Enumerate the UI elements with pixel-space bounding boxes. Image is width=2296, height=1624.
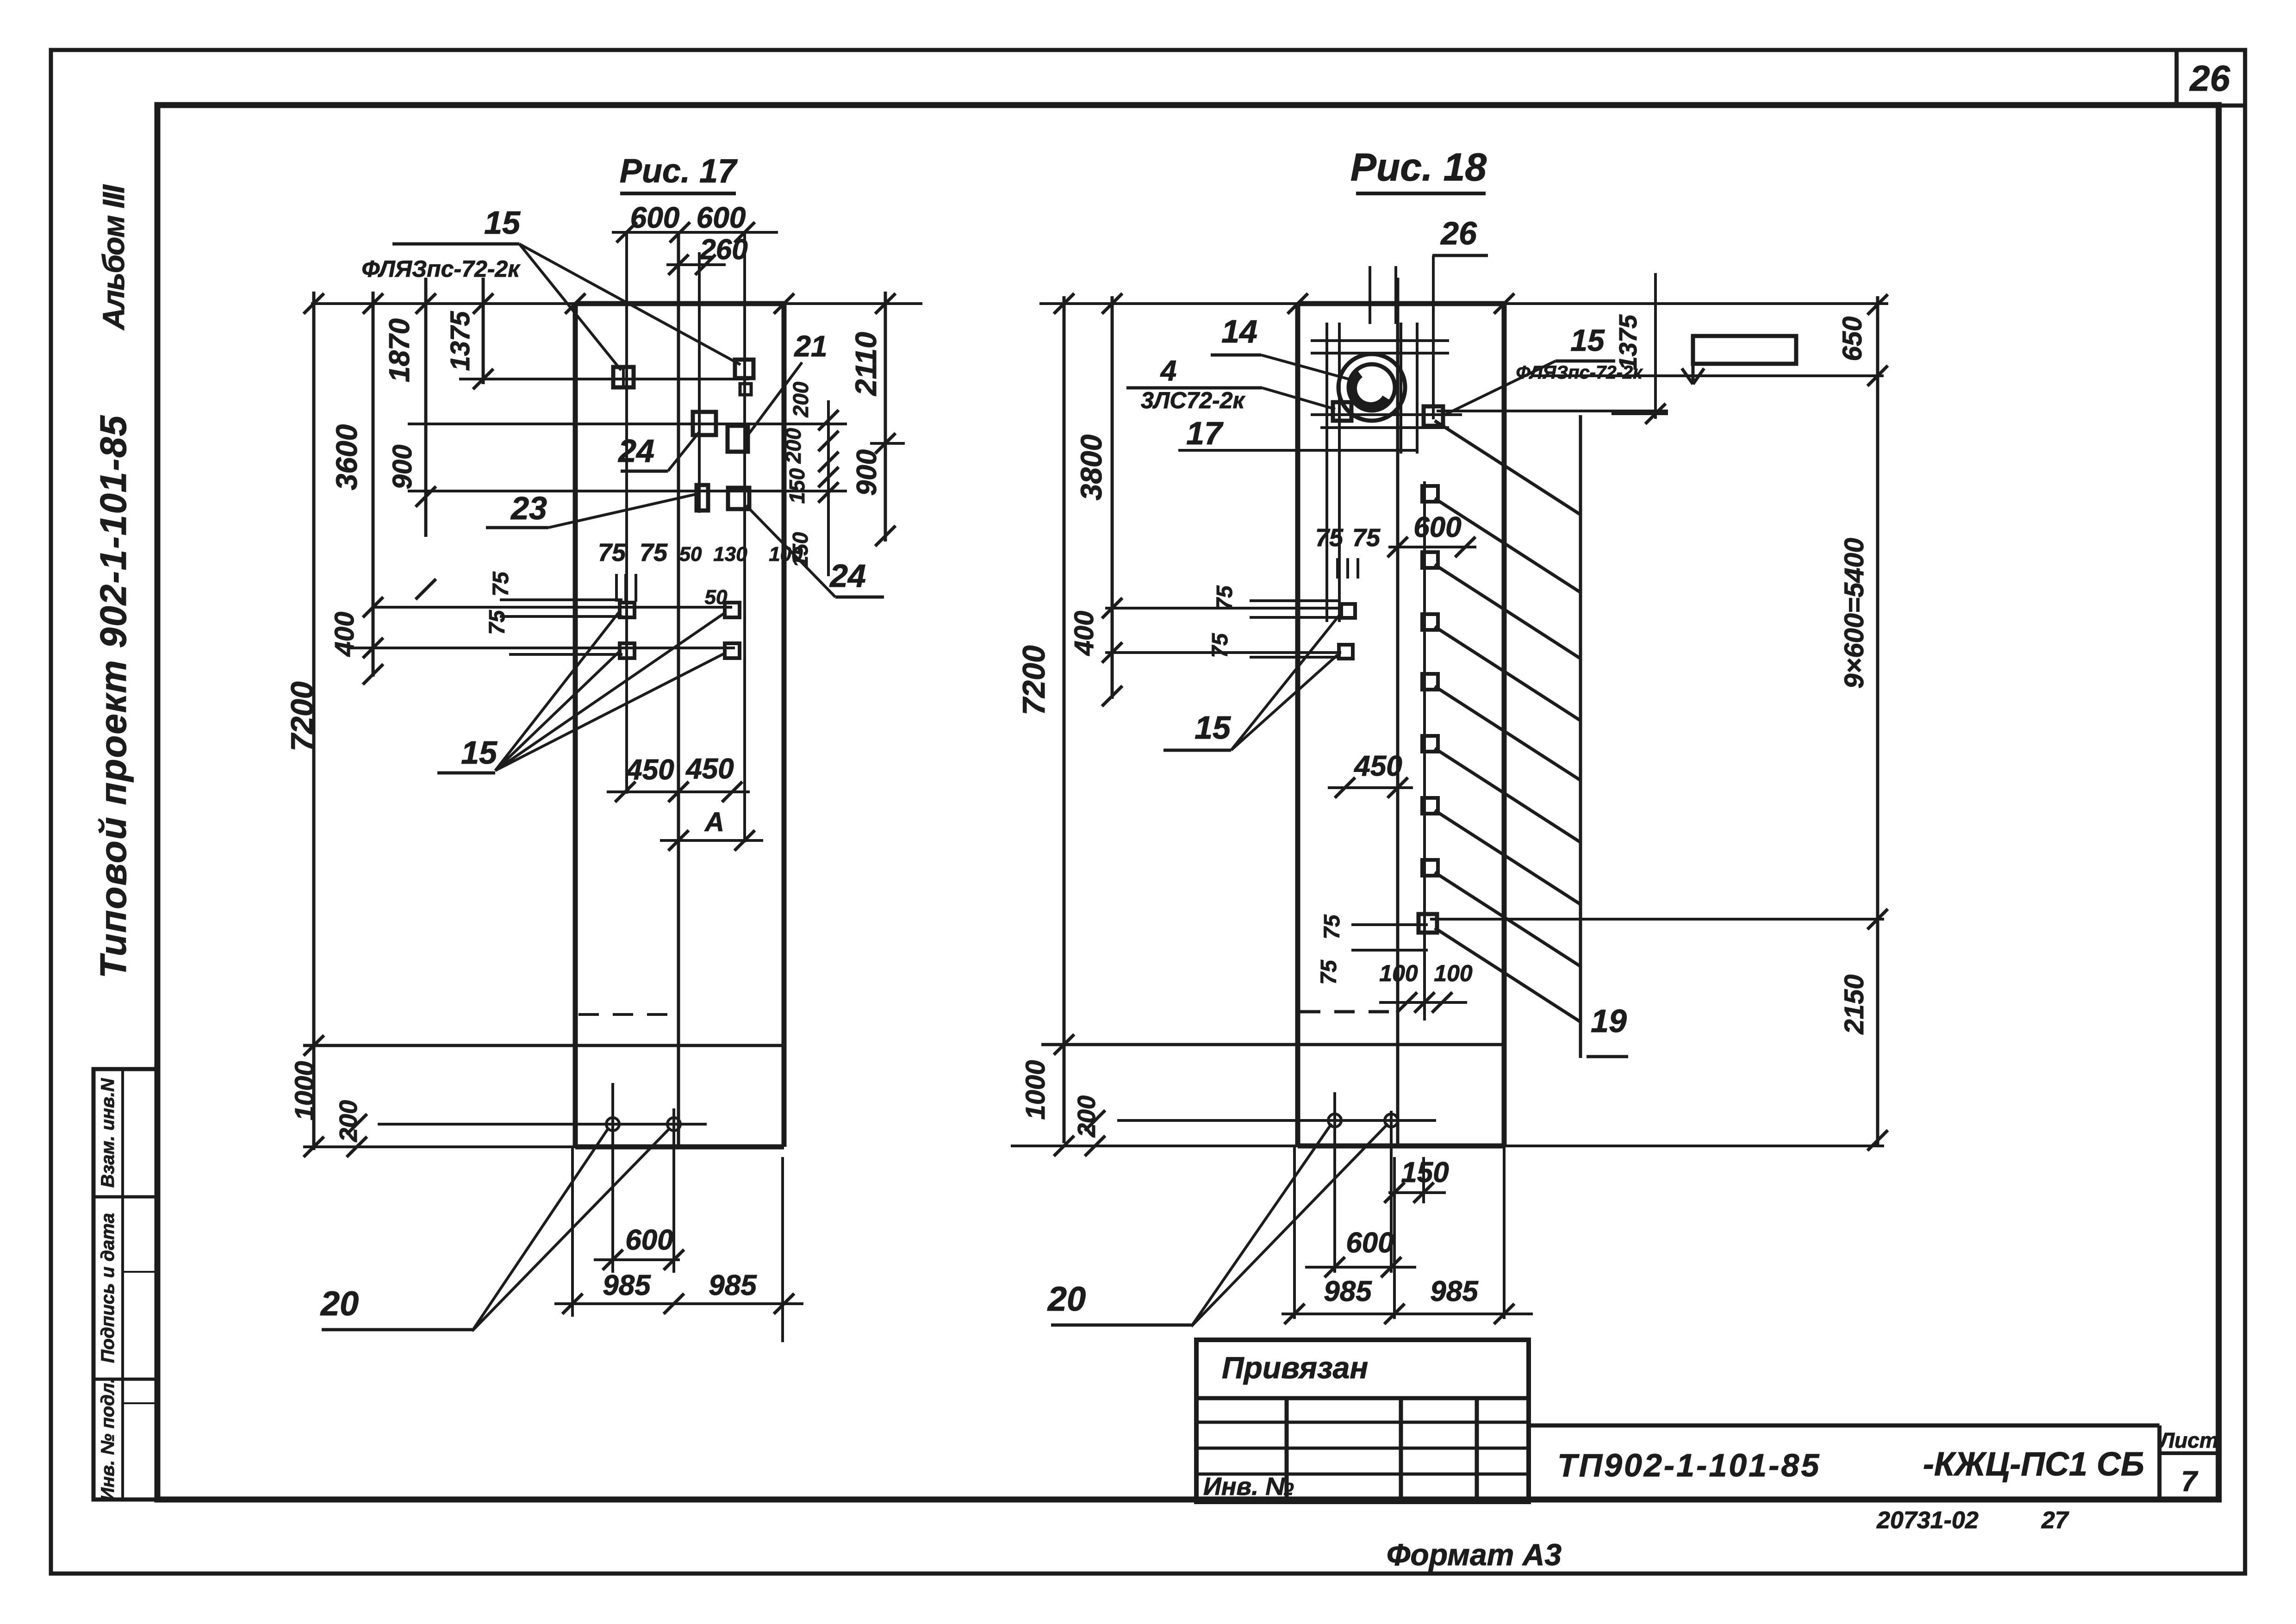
svg-text:Привязан: Привязан [1222, 1350, 1368, 1385]
svg-text:50: 50 [679, 543, 702, 566]
svg-text:150: 150 [1401, 1157, 1449, 1188]
svg-text:100: 100 [769, 543, 803, 566]
svg-text:400: 400 [1069, 611, 1099, 656]
svg-text:985: 985 [1324, 1276, 1372, 1307]
svg-text:А: А [704, 807, 724, 837]
svg-text:75: 75 [1213, 585, 1237, 610]
svg-text:450: 450 [685, 753, 734, 785]
svg-text:15: 15 [484, 205, 521, 241]
svg-text:ФЛЯЗпс-72-2к: ФЛЯЗпс-72-2к [361, 256, 521, 282]
svg-text:200: 200 [1073, 1095, 1101, 1138]
svg-text:450: 450 [1353, 750, 1402, 782]
svg-text:26: 26 [2189, 58, 2230, 99]
svg-text:1375: 1375 [445, 311, 475, 371]
svg-text:23: 23 [510, 490, 547, 526]
svg-text:150: 150 [785, 468, 809, 504]
svg-text:75: 75 [1352, 524, 1381, 552]
svg-text:17: 17 [1186, 415, 1224, 451]
svg-text:9×600=5400: 9×600=5400 [1839, 538, 1869, 689]
svg-text:600: 600 [1346, 1227, 1394, 1259]
svg-text:3800: 3800 [1075, 435, 1108, 500]
svg-text:600: 600 [625, 1224, 673, 1256]
svg-text:Рис. 17: Рис. 17 [620, 153, 738, 190]
svg-text:75: 75 [1320, 914, 1344, 940]
svg-text:1000: 1000 [1020, 1060, 1051, 1120]
svg-text:2150: 2150 [1839, 974, 1869, 1034]
svg-text:130: 130 [713, 543, 747, 566]
svg-text:24: 24 [617, 433, 654, 469]
svg-text:3ЛС72-2к: 3ЛС72-2к [1141, 387, 1245, 413]
svg-text:450: 450 [625, 754, 674, 786]
svg-text:27: 27 [2041, 1507, 2069, 1534]
svg-text:ТП902-1-101-85: ТП902-1-101-85 [1557, 1447, 1821, 1483]
svg-text:15: 15 [1195, 709, 1231, 746]
svg-text:985: 985 [603, 1269, 651, 1301]
svg-text:75: 75 [489, 571, 513, 597]
svg-text:21: 21 [794, 330, 827, 363]
svg-text:20: 20 [320, 1284, 359, 1323]
svg-text:24: 24 [829, 558, 866, 594]
svg-text:1375: 1375 [1614, 314, 1642, 370]
svg-text:Инв. № подл.: Инв. № подл. [98, 1378, 118, 1501]
svg-text:985: 985 [1430, 1276, 1479, 1307]
svg-text:600: 600 [1413, 511, 1461, 543]
svg-text:26: 26 [1440, 215, 1477, 251]
svg-text:Лист: Лист [2159, 1428, 2218, 1452]
svg-text:Рис. 18: Рис. 18 [1350, 145, 1487, 189]
svg-text:600: 600 [697, 201, 746, 234]
svg-text:75: 75 [598, 539, 626, 566]
svg-text:75: 75 [1317, 959, 1341, 985]
svg-text:Типовой проект 902-1-101-85: Типовой проект 902-1-101-85 [93, 415, 134, 978]
svg-text:7: 7 [2181, 1466, 2198, 1498]
svg-text:200: 200 [335, 1100, 362, 1142]
svg-text:75: 75 [640, 539, 668, 566]
svg-text:15: 15 [1570, 323, 1605, 357]
svg-text:900: 900 [387, 445, 417, 490]
svg-text:900: 900 [851, 449, 882, 496]
svg-text:50: 50 [705, 586, 728, 609]
svg-text:7200: 7200 [285, 681, 320, 751]
svg-text:20: 20 [1047, 1280, 1086, 1318]
svg-text:650: 650 [1837, 317, 1867, 361]
svg-text:Альбом III: Альбом III [96, 184, 131, 331]
svg-text:75: 75 [1315, 524, 1344, 552]
svg-text:Взам. инв.N: Взам. инв.N [98, 1078, 118, 1188]
svg-text:100: 100 [1379, 960, 1418, 986]
svg-text:2110: 2110 [849, 332, 883, 396]
svg-text:100: 100 [1434, 960, 1473, 986]
svg-text:985: 985 [709, 1269, 757, 1301]
svg-text:75: 75 [1208, 633, 1232, 658]
svg-text:3600: 3600 [330, 424, 363, 490]
svg-text:Подпись и дата: Подпись и дата [98, 1213, 118, 1363]
svg-text:600: 600 [630, 201, 680, 234]
svg-text:20731-02: 20731-02 [1876, 1507, 1979, 1534]
svg-text:400: 400 [330, 612, 360, 657]
svg-text:1000: 1000 [290, 1061, 320, 1120]
svg-text:15: 15 [461, 734, 498, 771]
svg-text:200: 200 [789, 381, 813, 417]
svg-text:1870: 1870 [384, 318, 416, 382]
svg-text:75: 75 [485, 610, 510, 635]
svg-text:Формат А3: Формат А3 [1387, 1537, 1562, 1572]
svg-text:4: 4 [1160, 355, 1176, 387]
svg-text:Инв. №: Инв. № [1203, 1473, 1294, 1500]
svg-text:7200: 7200 [1016, 645, 1052, 715]
svg-text:200: 200 [781, 428, 805, 464]
svg-text:260: 260 [699, 234, 747, 266]
svg-text:19: 19 [1591, 1003, 1627, 1039]
svg-text:-КЖЦ-ПС1 СБ: -КЖЦ-ПС1 СБ [1923, 1446, 2144, 1483]
svg-text:14: 14 [1221, 313, 1257, 349]
